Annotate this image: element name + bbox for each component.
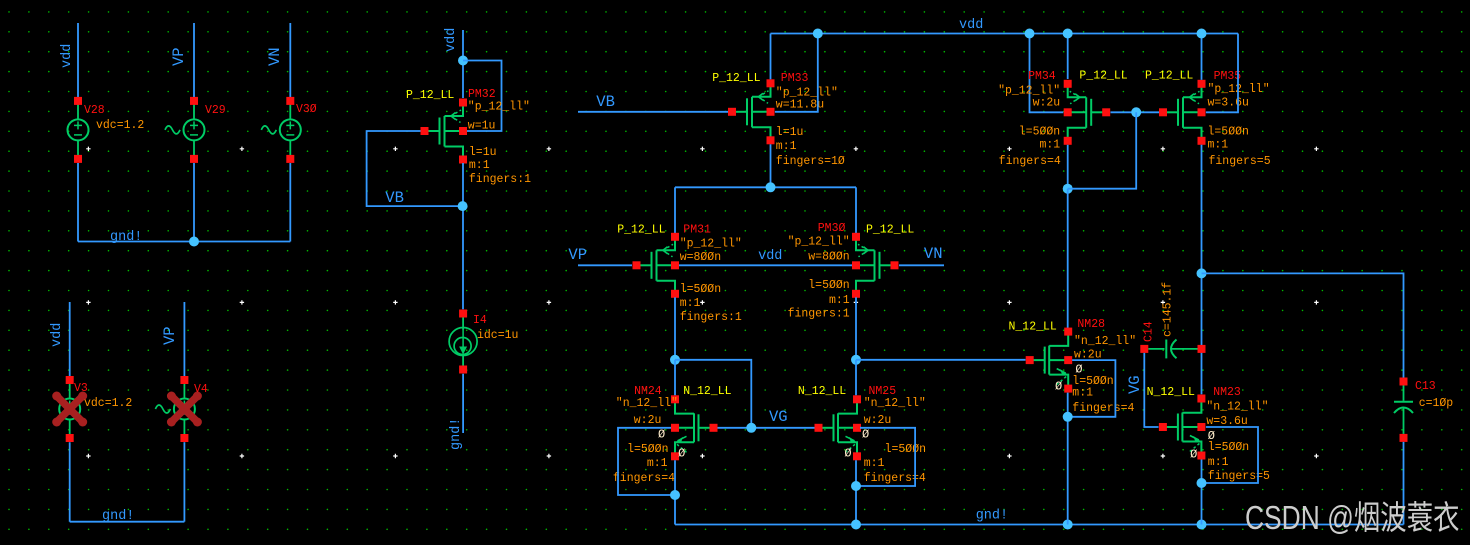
svg-text:vdd: vdd — [959, 18, 983, 33]
svg-text:VN: VN — [266, 47, 284, 66]
label m:1 of PM35 — [1208, 139, 1229, 152]
wire C13 to gnd — [1403, 442, 1405, 525]
label V29 — [205, 104, 226, 117]
svg-text:VB: VB — [596, 93, 615, 111]
label l=500n of NM28 — [1072, 375, 1113, 388]
wire PM30 drain to NM28 gate — [856, 359, 1026, 361]
label PM35 — [1214, 70, 1242, 83]
label fingers:1 of PM32 — [469, 173, 531, 186]
svg-text:vdd: vdd — [444, 28, 459, 52]
wire PM30 drain down — [855, 297, 857, 360]
label O slash source NM24 — [678, 447, 685, 461]
svg-text:w:2u: w:2u — [634, 414, 662, 427]
svg-text:w=1u: w=1u — [468, 120, 496, 133]
nmos NM28 — [1026, 328, 1073, 393]
wire vdd to PM32 source — [462, 30, 464, 98]
label P_12_LL of PM30 — [866, 224, 914, 237]
svg-text:idc=1u: idc=1u — [477, 329, 518, 342]
net label gnd! bottom-left — [102, 509, 134, 524]
wire PM33 bulk to vdd — [775, 34, 818, 112]
wire NM24 drain up — [674, 360, 676, 396]
wire VP column V4 — [183, 302, 185, 522]
svg-text:VG: VG — [769, 408, 788, 426]
label m:1 of PM30 — [829, 294, 850, 307]
label l=1u of PM32 — [469, 146, 497, 159]
svg-text:Ø: Ø — [678, 447, 685, 461]
svg-text:"n_12_ll": "n_12_ll" — [864, 397, 926, 410]
wire bulk rail vdd between pair — [679, 264, 852, 266]
label idc=1u of I4 — [477, 329, 518, 342]
voltage source V3 (crossed out) — [52, 376, 87, 442]
label l=500n of PM34 — [1019, 126, 1060, 139]
label vdc=1.2 of V3 — [84, 397, 132, 410]
label w=11.8u of PM33 — [776, 99, 824, 112]
svg-text:l=5ØØn: l=5ØØn — [808, 279, 849, 292]
net label vdd on rail — [959, 18, 983, 33]
wire PM34 source up — [1067, 34, 1069, 80]
label w:2u of NM25 — [864, 414, 892, 427]
net label vdd (rotated) bottom-left — [50, 323, 65, 347]
label p_12_ll of PM33 — [776, 87, 838, 100]
svg-text:P_12_LL: P_12_LL — [1145, 70, 1193, 83]
wire NM25 drain up — [855, 360, 857, 396]
label n_12_ll of NM28 — [1074, 335, 1136, 348]
svg-text:I4: I4 — [473, 314, 487, 327]
svg-text:m:1: m:1 — [1208, 139, 1229, 152]
svg-text:m:1: m:1 — [1072, 387, 1093, 400]
svg-text:C14: C14 — [1143, 321, 1156, 342]
label P_12_LL of PM31 — [617, 224, 665, 237]
pmos PM33 — [728, 79, 775, 144]
svg-text:w=3.6u: w=3.6u — [1208, 97, 1249, 110]
label m:1 of PM31 — [680, 297, 701, 310]
svg-text:c=145.1f: c=145.1f — [1162, 282, 1175, 337]
wire PM33 drain down — [770, 144, 772, 187]
node junction NM23 source on gnd — [1197, 520, 1207, 530]
svg-text:w=8ØØn: w=8ØØn — [808, 251, 849, 264]
node junction PM33 drain / source rail — [766, 182, 776, 192]
label vdc=1.2 of V28 — [96, 119, 144, 132]
svg-text:vdd: vdd — [60, 44, 75, 68]
node junction PM33 bulk on vdd rail — [813, 29, 823, 39]
label V28 — [84, 104, 105, 117]
label O slash bulk NM28 — [1075, 363, 1082, 377]
svg-text:fingers=4: fingers=4 — [864, 472, 926, 485]
capacitor C14 — [1140, 340, 1205, 359]
label fingers:1 of PM30 — [788, 308, 850, 321]
label O slash source NM25 — [844, 447, 851, 461]
net label VG — [769, 408, 788, 426]
svg-text:w:2u: w:2u — [1033, 97, 1061, 110]
voltage source V28 — [68, 97, 89, 163]
svg-text:gnd!: gnd! — [976, 509, 1008, 524]
label m:1 of PM32 — [469, 159, 490, 172]
node junction PM31/NM24 drains — [670, 355, 680, 365]
node junction NM28 tie — [1063, 412, 1073, 422]
svg-text:vdd: vdd — [758, 249, 782, 264]
label m:1 of NM28 — [1072, 387, 1093, 400]
net label VP (rotated) — [170, 47, 188, 66]
svg-text:"p_12_ll": "p_12_ll" — [680, 238, 742, 251]
wire gnd! rail — [675, 524, 1404, 526]
svg-text:V4: V4 — [194, 383, 208, 396]
svg-text:w:2u: w:2u — [864, 414, 892, 427]
label PM30 — [818, 222, 846, 235]
label P_12_LL of PM32 — [406, 89, 454, 102]
wire PM34 diode tie — [1068, 112, 1137, 188]
svg-text:l=1u: l=1u — [469, 146, 497, 159]
svg-text:C13: C13 — [1415, 380, 1436, 393]
svg-text:l=5ØØn: l=5ØØn — [1208, 441, 1249, 454]
label I4 — [473, 314, 487, 327]
label p_12_ll of PM30 — [788, 236, 850, 249]
label w:2u of NM28 — [1074, 349, 1102, 362]
voltage source V30 — [261, 97, 301, 163]
node junction output node — [1197, 268, 1207, 278]
label p_12_ll of PM34 — [998, 85, 1060, 98]
label fingers=5 of NM23 — [1208, 470, 1270, 483]
svg-text:N_12_LL: N_12_LL — [1009, 321, 1057, 334]
net label gnd! below I4 (rotated) — [449, 418, 464, 450]
svg-text:VP: VP — [161, 326, 179, 345]
wire PM34 bulk to vdd loop — [1030, 34, 1064, 113]
label NM23 — [1213, 386, 1241, 399]
label m:1 of NM24 — [647, 457, 668, 470]
label c=10p of C13 — [1419, 397, 1454, 410]
label PM32 — [468, 88, 496, 101]
label O slash source NM28 — [1055, 380, 1062, 394]
wire drain junction to VG riser — [675, 360, 751, 428]
wire I4 to gnd — [462, 374, 464, 433]
label NM25 — [869, 385, 897, 398]
label C14 (rotated) — [1143, 321, 1156, 342]
wire gate rail VG — [718, 427, 815, 429]
label O slash source NM23 — [1190, 448, 1197, 462]
wire PM34 drain down — [1067, 145, 1069, 189]
wire gnd! rail top-left — [78, 241, 290, 243]
label n_12_ll of NM23 — [1206, 401, 1268, 414]
svg-text:fingers:1: fingers:1 — [469, 173, 531, 186]
svg-text:"n_12_ll": "n_12_ll" — [1206, 401, 1268, 414]
current source I4 — [449, 310, 477, 374]
watermark CSDN — [1245, 500, 1459, 536]
svg-text:fingers=4: fingers=4 — [999, 155, 1061, 168]
svg-text:w=11.8u: w=11.8u — [776, 99, 824, 112]
svg-text:P_12_LL: P_12_LL — [866, 224, 914, 237]
svg-text:Ø: Ø — [862, 428, 869, 442]
net label VP input — [568, 246, 587, 264]
node junction PM34 source on vdd — [1063, 29, 1073, 39]
svg-text:m:1: m:1 — [680, 297, 701, 310]
nmos NM24 (mirrored) — [671, 395, 718, 460]
node junction VG — [746, 423, 756, 433]
label w=3.6u of PM35 — [1208, 97, 1249, 110]
svg-text:VG: VG — [1126, 375, 1144, 394]
node junction PM34 bulk on vdd — [1025, 29, 1035, 39]
svg-text:V29: V29 — [205, 104, 226, 117]
svg-text:VP: VP — [568, 246, 587, 264]
label l=1u of PM33 — [776, 126, 804, 139]
svg-text:N_12_LL: N_12_LL — [683, 385, 731, 398]
wire NM24 source down — [674, 460, 676, 524]
svg-text:V3Ø: V3Ø — [296, 103, 317, 116]
net label VN input — [924, 245, 943, 263]
label V3 — [74, 382, 88, 395]
node junction NM23 tie — [1197, 478, 1207, 488]
label n_12_ll of NM24 — [616, 397, 678, 410]
svg-text:VP: VP — [170, 47, 188, 66]
wire output to C13 — [1202, 273, 1404, 377]
label NM28 — [1077, 318, 1105, 331]
label w=800n of PM30 — [808, 251, 849, 264]
svg-text:vdc=1.2: vdc=1.2 — [84, 397, 132, 410]
wire C14 to NM23 gate — [1144, 353, 1158, 427]
pmos PM30 (mirrored) — [852, 233, 899, 298]
label m:1 of NM23 — [1208, 456, 1229, 469]
label NM24 — [634, 385, 662, 398]
svg-text:PM3Ø: PM3Ø — [818, 222, 846, 235]
wire VP column V29 — [193, 23, 195, 242]
net label gnd! top-left — [110, 230, 142, 245]
label V4 — [194, 383, 208, 396]
net label VB at PM33 — [596, 93, 615, 111]
label V30 — [296, 103, 317, 116]
label O slash bulk NM24 — [658, 428, 665, 442]
wire NM24 bulk-source tie loop — [618, 428, 675, 495]
label P_12_LL of PM34 — [1079, 70, 1127, 83]
wire NM28 bulk-source tie loop — [1068, 360, 1116, 417]
svg-text:P_12_LL: P_12_LL — [406, 89, 454, 102]
svg-text:gnd!: gnd! — [102, 509, 134, 524]
label O slash bulk NM23 — [1208, 429, 1215, 443]
label l=500n of PM35 — [1208, 126, 1249, 139]
wire PM32 bulk to vdd loop — [463, 61, 502, 132]
svg-text:fingers:1: fingers:1 — [680, 311, 742, 324]
svg-text:m:1: m:1 — [1039, 139, 1060, 152]
label C13 — [1415, 380, 1436, 393]
wire vdd column V28 — [77, 23, 79, 242]
label N_12_LL of NM28 — [1009, 321, 1057, 334]
svg-text:gnd!: gnd! — [110, 230, 142, 245]
node junction PM34 drain tie — [1063, 184, 1073, 194]
label n_12_ll of NM25 — [864, 397, 926, 410]
label w=800n of PM31 — [680, 251, 721, 264]
wire NM25 bulk-source tie loop — [856, 428, 915, 486]
svg-text:PM32: PM32 — [468, 88, 496, 101]
wire VB input to PM33 — [578, 111, 728, 113]
node junction PM30/NM25 drains — [851, 355, 861, 365]
label p_12_ll of PM35 — [1208, 83, 1270, 96]
svg-text:"n_12_ll": "n_12_ll" — [1074, 335, 1136, 348]
net label vdd above PM32 (rotated) — [444, 28, 459, 52]
pmos PM32 — [421, 99, 468, 164]
svg-text:fingers=5: fingers=5 — [1208, 470, 1270, 483]
svg-text:vdd: vdd — [50, 323, 65, 347]
label N_12_LL of NM24 — [683, 385, 731, 398]
wire PM33 source to vdd — [770, 34, 772, 80]
label w:2u of PM34 — [1033, 97, 1061, 110]
svg-text:l=5ØØn: l=5ØØn — [1208, 126, 1249, 139]
capacitor C13 — [1394, 378, 1413, 442]
net label VB at PM32 — [385, 189, 404, 207]
svg-text:VN: VN — [924, 245, 943, 263]
svg-text:l=5ØØn: l=5ØØn — [885, 443, 926, 456]
node junction V29-gnd — [189, 237, 199, 247]
label w=1u of PM32 — [468, 120, 496, 133]
nmos NM23 — [1159, 395, 1206, 460]
node junction NM25 source on gnd — [851, 520, 861, 530]
label l=500n of PM31 — [680, 283, 721, 296]
svg-text:fingers=5: fingers=5 — [1209, 155, 1271, 168]
label w=3.6u of NM23 — [1206, 415, 1247, 428]
wire VN column V30 — [289, 23, 291, 242]
label m:1 of PM33 — [776, 140, 797, 153]
nmos NM25 — [815, 395, 862, 460]
svg-text:m:1: m:1 — [469, 159, 490, 172]
label fingers=5 of PM35 — [1209, 155, 1271, 168]
label p_12_ll of PM32 — [468, 101, 530, 114]
node junction PM35 source on vdd — [1197, 29, 1207, 39]
label N_12_LL of NM23 — [1147, 386, 1195, 399]
svg-text:fingers=4: fingers=4 — [1072, 402, 1134, 415]
voltage source V4 (crossed out) — [155, 376, 202, 442]
wire NM23 source down — [1201, 460, 1203, 525]
wire PM31 source up — [674, 187, 676, 233]
svg-text:N_12_LL: N_12_LL — [798, 385, 846, 398]
label c=145.1f of C14 (rotated) — [1162, 282, 1175, 337]
wire gate rail PM34-PM35 — [1111, 111, 1160, 113]
svg-text:Ø: Ø — [658, 428, 665, 442]
wire vdd column V3 — [69, 302, 71, 522]
label fingers=4 of PM34 — [999, 155, 1061, 168]
voltage source V29 — [165, 97, 205, 163]
svg-text:fingers=4: fingers=4 — [613, 472, 675, 485]
svg-text:PM34: PM34 — [1028, 70, 1056, 83]
label l=500n of NM23 — [1208, 441, 1249, 454]
wire PM32 drain down — [462, 163, 464, 309]
svg-text:P_12_LL: P_12_LL — [1079, 70, 1127, 83]
label fingers=4 of NM28 — [1072, 402, 1134, 415]
svg-text:"p_12_ll": "p_12_ll" — [468, 101, 530, 114]
node junction PM32 drain / VB loop — [458, 201, 468, 211]
svg-text:NM23: NM23 — [1213, 386, 1241, 399]
node junction NM25 tie — [851, 481, 861, 491]
pmos PM35 — [1159, 80, 1206, 145]
wire PM34 drain to NM28 drain — [1067, 189, 1069, 330]
label p_12_ll of PM31 — [680, 238, 742, 251]
svg-text:l=1u: l=1u — [776, 126, 804, 139]
label fingers=10 of PM33 — [776, 155, 845, 168]
label P_12_LL of PM35 — [1145, 70, 1193, 83]
label PM33 — [781, 72, 809, 85]
svg-text:P_12_LL: P_12_LL — [617, 224, 665, 237]
svg-text:"p_12_ll": "p_12_ll" — [788, 236, 850, 249]
net label vdd between pair — [758, 249, 782, 264]
svg-text:VB: VB — [385, 189, 404, 207]
label w:2u of NM24 — [634, 414, 662, 427]
wire VN input to PM30 — [899, 264, 944, 266]
label l=500n of NM25 — [885, 443, 926, 456]
svg-text:m:1: m:1 — [1208, 456, 1229, 469]
wire gnd! rail bottom-left — [70, 521, 185, 523]
svg-text:w=8ØØn: w=8ØØn — [680, 251, 721, 264]
wire PM35 drain down (output) — [1201, 145, 1203, 394]
svg-text:Ø: Ø — [1190, 448, 1197, 462]
label fingers=4 of NM25 — [864, 472, 926, 485]
svg-text:Ø: Ø — [1055, 380, 1062, 394]
net label VN (rotated) — [266, 47, 284, 66]
wire PM35 source up — [1201, 34, 1203, 80]
svg-text:NM28: NM28 — [1077, 318, 1105, 331]
wire NM28 source down — [1067, 393, 1069, 525]
label N_12_LL of NM25 — [798, 385, 846, 398]
svg-text:m:1: m:1 — [829, 294, 850, 307]
svg-text:m:1: m:1 — [647, 457, 668, 470]
wire VB loop of PM32 — [367, 131, 459, 206]
wire diff pair source rail — [675, 186, 856, 188]
net label VP (rotated) bottom-left — [161, 326, 179, 345]
svg-text:V3: V3 — [74, 382, 88, 395]
svg-text:vdc=1.2: vdc=1.2 — [96, 119, 144, 132]
svg-text:m:1: m:1 — [776, 140, 797, 153]
label O slash bulk NM25 — [862, 428, 869, 442]
label l=500n of PM30 — [808, 279, 849, 292]
svg-text:l=5ØØn: l=5ØØn — [680, 283, 721, 296]
label m:1 of NM25 — [864, 457, 885, 470]
svg-text:PM33: PM33 — [781, 72, 809, 85]
svg-text:l=5ØØn: l=5ØØn — [1019, 126, 1060, 139]
svg-text:CSDN @烟波蓑衣: CSDN @烟波蓑衣 — [1245, 500, 1459, 536]
svg-text:l=5ØØn: l=5ØØn — [627, 443, 668, 456]
node junction NM24 tie — [670, 490, 680, 500]
svg-text:w=3.6u: w=3.6u — [1206, 415, 1247, 428]
label fingers=4 of NM24 — [613, 472, 675, 485]
pmos PM34 (mirrored) — [1064, 80, 1111, 145]
svg-text:"n_12_ll": "n_12_ll" — [616, 397, 678, 410]
wire NM25 source down — [855, 460, 857, 524]
svg-text:PM31: PM31 — [683, 224, 711, 237]
svg-text:Ø: Ø — [844, 447, 851, 461]
label l=500n of NM24 — [627, 443, 668, 456]
wire VP input to PM31 — [578, 264, 632, 266]
svg-text:gnd!: gnd! — [449, 418, 464, 450]
svg-text:fingers:1: fingers:1 — [788, 308, 850, 321]
wire PM31 drain down — [674, 297, 676, 360]
svg-text:P_12_LL: P_12_LL — [712, 72, 760, 85]
node junction PM34 gate tie — [1131, 107, 1141, 117]
label P_12_LL of PM33 — [712, 72, 760, 85]
wire vdd rail — [771, 33, 1239, 35]
node junction NM28 source on gnd — [1063, 520, 1073, 530]
label PM34 — [1028, 70, 1056, 83]
svg-text:V28: V28 — [84, 104, 105, 117]
pmos PM31 — [633, 233, 680, 298]
net label VG (rotated) at NM23 — [1126, 375, 1144, 394]
node junction PM32 bulk tie — [458, 56, 468, 66]
label fingers:1 of PM31 — [680, 311, 742, 324]
wire PM35 bulk to vdd loop — [1206, 34, 1238, 113]
label PM31 — [683, 224, 711, 237]
label m:1 of PM34 — [1039, 139, 1060, 152]
svg-text:m:1: m:1 — [864, 457, 885, 470]
wire PM30 source up — [855, 187, 857, 233]
wire NM23 bulk-source tie loop — [1202, 427, 1259, 483]
net label vdd (rotated) — [60, 44, 75, 68]
svg-text:N_12_LL: N_12_LL — [1147, 386, 1195, 399]
svg-text:c=1Øp: c=1Øp — [1419, 397, 1454, 410]
net label gnd! on rail — [976, 509, 1008, 524]
svg-text:fingers=1Ø: fingers=1Ø — [776, 155, 845, 168]
